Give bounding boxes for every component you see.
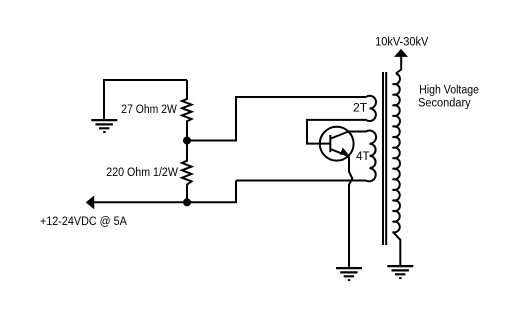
- svg-text:High Voltage: High Voltage: [419, 85, 479, 97]
- svg-text:Secondary: Secondary: [418, 98, 471, 110]
- svg-text:+12-24VDC @ 5A: +12-24VDC @ 5A: [40, 216, 127, 228]
- svg-text:220 Ohm 1/2W: 220 Ohm 1/2W: [106, 167, 178, 179]
- svg-text:4T: 4T: [356, 151, 370, 163]
- svg-text:10kV-30kV: 10kV-30kV: [375, 37, 429, 49]
- svg-text:27 Ohm 2W: 27 Ohm 2W: [121, 104, 177, 116]
- svg-text:2T: 2T: [353, 103, 367, 115]
